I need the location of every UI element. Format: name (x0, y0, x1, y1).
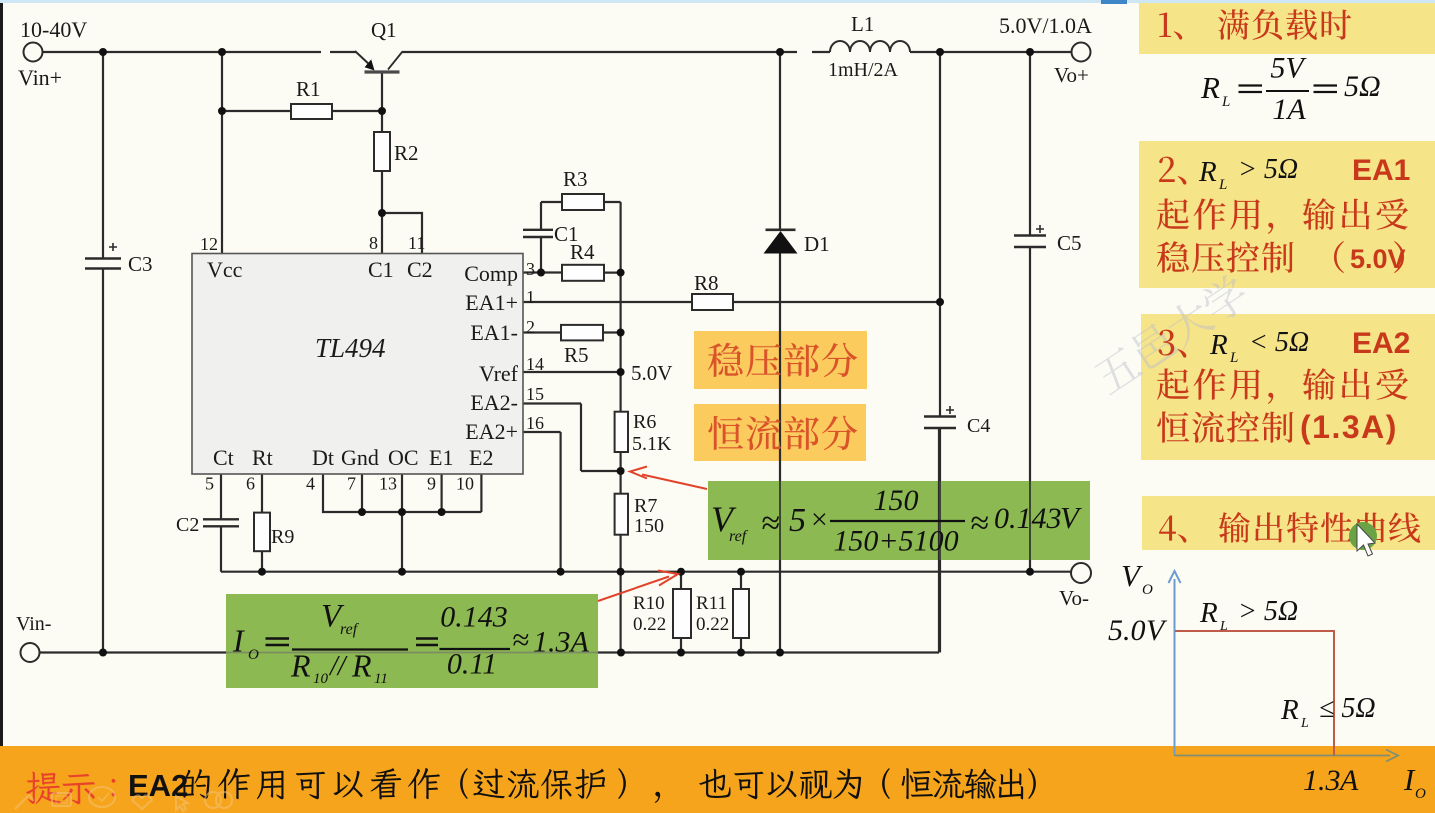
svg-text:1.3A: 1.3A (533, 626, 590, 659)
svg-text:R10: R10 (633, 593, 665, 614)
svg-text:R3: R3 (563, 167, 588, 191)
svg-text:0.22: 0.22 (696, 614, 729, 635)
svg-text:5.1K: 5.1K (632, 433, 672, 455)
svg-text:7: 7 (347, 474, 356, 494)
svg-text:12: 12 (200, 234, 218, 254)
svg-text:I: I (232, 623, 245, 659)
svg-text:TL494: TL494 (315, 333, 386, 363)
svg-text:11: 11 (374, 671, 388, 687)
svg-text:1.3: 1.3 (1303, 764, 1341, 797)
svg-text:5.0V/1.0A: 5.0V/1.0A (999, 13, 1092, 38)
svg-text:O: O (248, 647, 259, 663)
svg-text:A: A (1338, 764, 1359, 797)
svg-text:≈: ≈ (512, 622, 529, 657)
svg-text:C1: C1 (368, 257, 394, 282)
svg-text:E2: E2 (469, 445, 493, 470)
svg-text:Gnd: Gnd (341, 445, 379, 470)
svg-text:C2: C2 (176, 514, 199, 536)
svg-text:L: L (1219, 619, 1228, 634)
svg-text:R: R (1199, 597, 1218, 629)
svg-text:10: 10 (456, 474, 474, 494)
svg-text:1A: 1A (1272, 93, 1306, 126)
svg-text:9: 9 (427, 474, 436, 494)
svg-text:EA2+: EA2+ (465, 419, 518, 444)
svg-text:≈: ≈ (970, 505, 989, 542)
svg-text:> 5Ω: > 5Ω (1238, 596, 1298, 627)
svg-text:≈: ≈ (761, 505, 780, 542)
svg-text:EA2-: EA2- (470, 390, 518, 415)
svg-text:Dt: Dt (312, 445, 334, 470)
svg-text:0.22: 0.22 (633, 614, 666, 635)
svg-text:≤ 5Ω: ≤ 5Ω (1319, 693, 1376, 724)
svg-text:Q1: Q1 (371, 18, 397, 42)
svg-text:0.143: 0.143 (994, 502, 1062, 535)
svg-text:3: 3 (526, 259, 535, 279)
svg-text:10: 10 (313, 671, 329, 687)
svg-text:L: L (1229, 350, 1238, 366)
svg-text:0.11: 0.11 (447, 648, 497, 681)
svg-text:R: R (1200, 70, 1220, 105)
svg-text:×: × (809, 503, 829, 536)
svg-text:10-40V: 10-40V (20, 17, 87, 42)
svg-text:EA2: EA2 (1352, 327, 1410, 360)
svg-text:O: O (1142, 582, 1153, 598)
svg-text:R9: R9 (271, 526, 294, 548)
svg-text:EA1-: EA1- (470, 320, 518, 345)
svg-text:Vcc: Vcc (207, 257, 243, 282)
svg-text:5Ω: 5Ω (1344, 70, 1381, 103)
svg-text:5: 5 (789, 502, 806, 539)
svg-text:Vref: Vref (479, 361, 519, 386)
svg-text:Vo-: Vo- (1059, 586, 1089, 610)
svg-text:O: O (1415, 786, 1426, 802)
svg-text:EA1+: EA1+ (465, 290, 518, 315)
svg-text:R: R (1280, 694, 1299, 726)
svg-text:R: R (290, 648, 311, 684)
svg-text:Ct: Ct (213, 445, 234, 470)
svg-text:< 5Ω: < 5Ω (1249, 327, 1309, 358)
svg-text:> 5Ω: > 5Ω (1238, 154, 1298, 185)
svg-text:R: R (1198, 156, 1217, 188)
svg-text:L1: L1 (851, 12, 874, 36)
svg-text:V: V (1121, 558, 1143, 593)
svg-text:5.0: 5.0 (1108, 614, 1146, 647)
svg-text:C4: C4 (967, 415, 990, 437)
svg-text:R2: R2 (394, 141, 419, 165)
svg-text:ref: ref (340, 621, 360, 638)
svg-text:0.143: 0.143 (440, 601, 508, 634)
svg-text:ref: ref (729, 528, 749, 545)
svg-text:L: L (1218, 177, 1227, 193)
svg-text:11: 11 (408, 233, 425, 253)
svg-text:150: 150 (634, 515, 664, 537)
svg-text:E1: E1 (429, 445, 453, 470)
svg-text:Vin+: Vin+ (18, 65, 62, 90)
svg-text:150+5100: 150+5100 (833, 525, 958, 558)
svg-text:C5: C5 (1057, 231, 1082, 255)
svg-text:4: 4 (306, 474, 315, 494)
svg-text:D1: D1 (804, 232, 830, 256)
svg-text:Vo+: Vo+ (1054, 63, 1089, 87)
svg-text:R6: R6 (633, 411, 656, 433)
svg-text:14: 14 (526, 354, 544, 374)
svg-text:15: 15 (526, 384, 544, 404)
svg-text:8: 8 (369, 233, 378, 253)
svg-text:Rt: Rt (252, 445, 273, 470)
svg-text:5V: 5V (1270, 52, 1307, 85)
svg-text:2: 2 (526, 317, 535, 337)
svg-text:C2: C2 (407, 257, 433, 282)
svg-text:1: 1 (526, 287, 535, 307)
svg-text:Comp: Comp (464, 261, 518, 286)
svg-text:R11: R11 (696, 593, 727, 614)
svg-text:1mH/2A: 1mH/2A (828, 59, 899, 81)
svg-text:C3: C3 (128, 252, 153, 276)
svg-text:150: 150 (874, 484, 919, 517)
svg-text:R: R (351, 648, 372, 684)
svg-text:R5: R5 (564, 343, 589, 367)
svg-text://: // (328, 651, 348, 682)
svg-text:L: L (1221, 94, 1230, 110)
svg-text:5: 5 (205, 474, 214, 494)
svg-text:L: L (1300, 716, 1309, 731)
svg-text:R4: R4 (570, 240, 595, 264)
svg-text:16: 16 (526, 413, 544, 433)
svg-text:Vin-: Vin- (16, 613, 51, 635)
svg-text:EA1: EA1 (1352, 154, 1410, 187)
svg-text:(1.3A): (1.3A) (1300, 409, 1398, 445)
svg-text:13: 13 (379, 474, 397, 494)
svg-text:R: R (1209, 329, 1228, 361)
svg-text:V: V (1060, 500, 1082, 535)
svg-text:OC: OC (388, 445, 419, 470)
svg-text:6: 6 (246, 474, 255, 494)
svg-text:R8: R8 (694, 271, 719, 295)
svg-text:R7: R7 (634, 495, 657, 517)
svg-text:5.0V: 5.0V (631, 361, 672, 385)
svg-text:R1: R1 (296, 77, 321, 101)
